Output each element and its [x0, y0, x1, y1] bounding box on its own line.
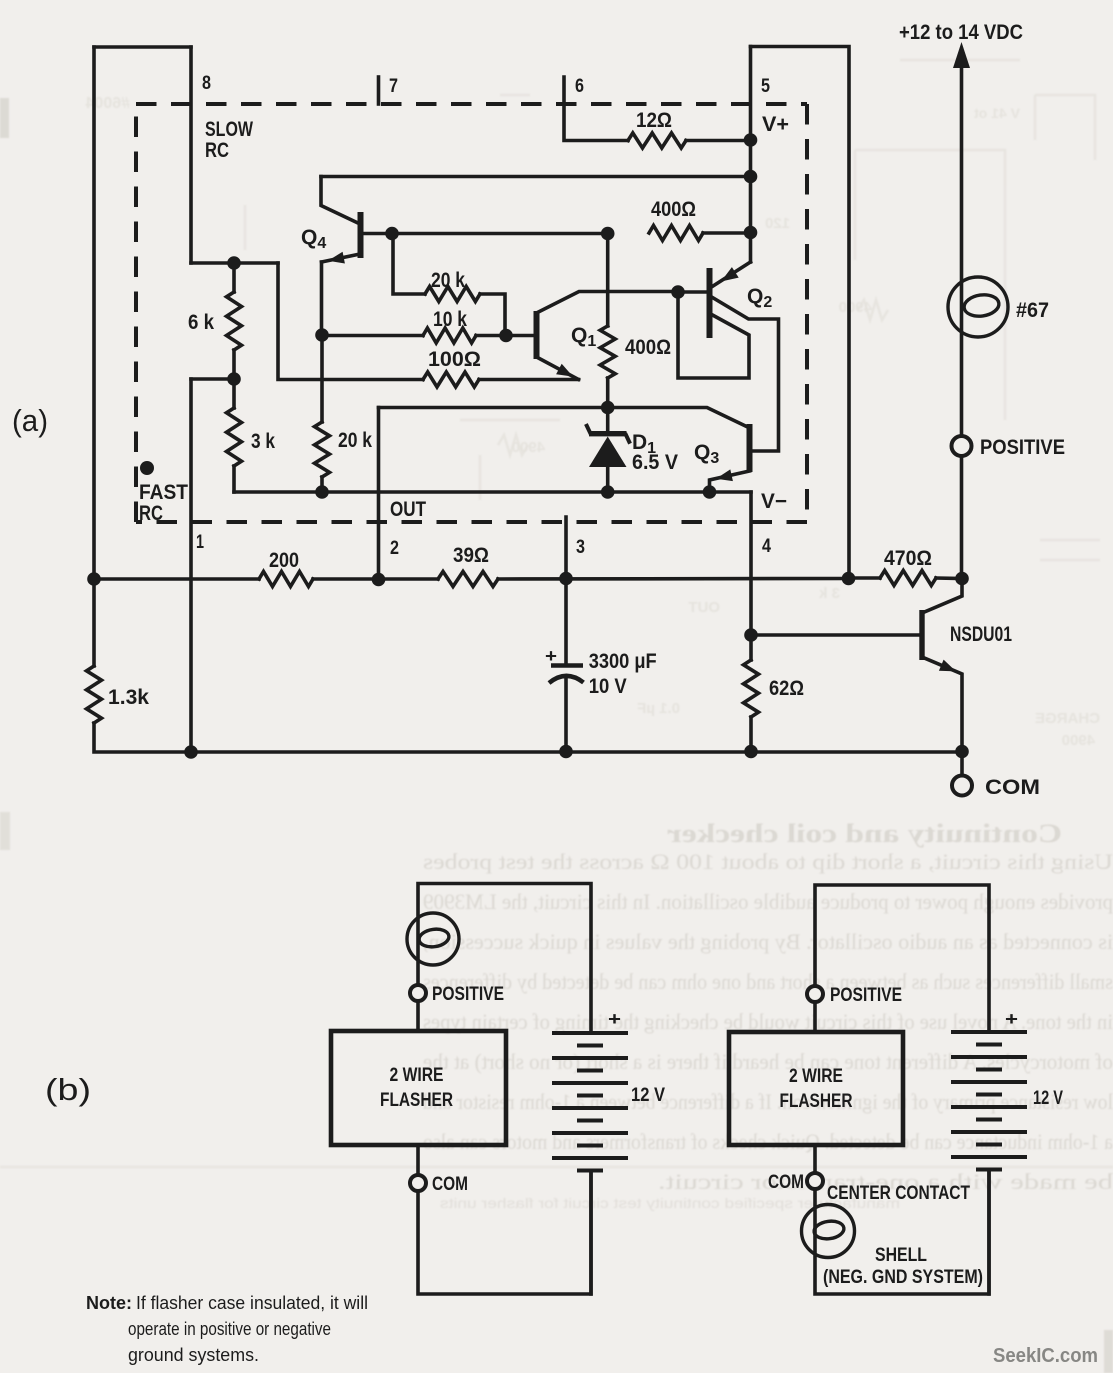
svg-text:10 V: 10 V — [589, 675, 627, 698]
svg-text:of motorcycles. A different to: of motorcycles. A different tone can be … — [423, 1049, 1113, 1074]
svg-text:6 k: 6 k — [188, 311, 214, 334]
ghost: faint rule from reverse page — [0, 1166, 1113, 1169]
wire pin 3 stub — [564, 517, 568, 579]
terminal POSITIVE (b1) — [410, 985, 426, 1001]
wire to 100 ohm — [278, 263, 423, 380]
svg-text:100Ω: 100Ω — [428, 348, 481, 371]
resistor 1.3k — [87, 666, 102, 723]
resistor 400 ohm (vertical) — [606, 234, 610, 327]
svg-text:12 V: 12 V — [631, 1085, 665, 1106]
wire left loop (b1) — [418, 884, 591, 1034]
svg-text:SHELL: SHELL — [875, 1245, 927, 1266]
svg-text:small differences such as betw: small differences such as between a shor… — [423, 969, 1113, 994]
junction 470 ohm left — [842, 572, 856, 586]
svg-text:1: 1 — [196, 532, 204, 553]
resistor 200 — [259, 572, 313, 587]
svg-text:20 k: 20 k — [338, 429, 372, 452]
svg-text:is connected as an audio oscil: is connected as an audio oscillator. By … — [423, 929, 1113, 954]
battery 12V (b1) — [552, 1031, 628, 1035]
svg-text:provides enough power to produ: provides enough power to produce audible… — [423, 889, 1113, 914]
wire lamp trunk — [960, 52, 964, 579]
svg-text:COM: COM — [768, 1172, 804, 1193]
svg-text:low resistance primary of the: low resistance primary of the ignition c… — [423, 1089, 1113, 1114]
wire pin 1 stub — [189, 379, 193, 752]
svg-text:V+: V+ — [762, 113, 789, 136]
svg-text:200: 200 — [269, 549, 299, 572]
junction 62 ohm bottom — [744, 745, 758, 759]
terminal COM — [952, 776, 972, 796]
wire pin 5 V+ trunk — [749, 47, 753, 263]
svg-text:4900: 4900 — [1062, 732, 1095, 749]
junction Q4 emitter / 10k — [315, 328, 329, 342]
junction pin 3 / rail — [559, 572, 573, 586]
svg-text:2 WIRE: 2 WIRE — [789, 1066, 843, 1087]
svg-text:OUT: OUT — [390, 498, 426, 521]
junction emitter / bottom rail — [955, 745, 969, 759]
battery 12V (b2) — [951, 1030, 1027, 1034]
svg-text:5: 5 — [761, 76, 770, 97]
transistor Q3 — [747, 424, 753, 472]
wire pin 2 stub — [377, 408, 381, 581]
svg-text:#67: #67 — [1016, 299, 1049, 322]
svg-text:+: + — [608, 1009, 621, 1029]
junction cap bottom — [559, 745, 573, 759]
svg-text:V−: V− — [761, 490, 787, 513]
svg-text:(a): (a) — [12, 403, 48, 438]
svg-text:V 41 ot: V 41 ot — [974, 105, 1020, 121]
resistor 470 ohm — [880, 571, 936, 586]
junction 6k bottom — [227, 372, 241, 386]
lamp #67 — [948, 277, 1008, 337]
junction OUT / D1 — [601, 401, 615, 415]
wire pin 8 stub — [189, 47, 193, 263]
svg-text:62Ω: 62Ω — [769, 677, 804, 700]
svg-text:0.1 µF: 0.1 µF — [637, 700, 680, 717]
svg-text:3: 3 — [576, 537, 585, 558]
svg-text:3300 μF: 3300 μF — [589, 650, 657, 673]
svg-text:ground systems.: ground systems. — [128, 1345, 259, 1365]
svg-text:7: 7 — [389, 76, 398, 97]
junction pin1 / bottom rail — [184, 745, 198, 759]
svg-text:Q3: Q3 — [694, 441, 719, 467]
svg-text:2 WIRE: 2 WIRE — [390, 1065, 444, 1086]
junction 12 ohm — [744, 133, 758, 147]
wire OUT net — [379, 408, 747, 427]
svg-text:20 k: 20 k — [431, 269, 465, 292]
junction outer left / rail — [87, 572, 101, 586]
junction Q3 emitter — [703, 485, 717, 499]
svg-text:6.5 V: 6.5 V — [632, 451, 678, 474]
lamp shell (b2) — [802, 1205, 855, 1258]
ghost: faint schematic bleed-through marks — [245, 60, 1100, 560]
junction D1 bottom — [601, 485, 615, 499]
svg-text:3 k: 3 k — [251, 430, 275, 453]
svg-text:FLASHER: FLASHER — [380, 1090, 453, 1111]
wire bottom loop (b2) — [815, 1145, 989, 1294]
terminal COM (b1) — [410, 1175, 426, 1191]
svg-text:2: 2 — [390, 538, 399, 559]
svg-text:Note:: Note: — [86, 1293, 132, 1313]
svg-text:400Ω: 400Ω — [651, 198, 696, 221]
svg-text:operate in positive or negativ: operate in positive or negative — [128, 1319, 331, 1339]
wire bottom rail — [94, 723, 962, 752]
svg-text:Q2: Q2 — [747, 285, 772, 311]
wire V- rail — [234, 490, 751, 494]
svg-text:FLASHER: FLASHER — [780, 1091, 853, 1112]
capacitor 3300uF 10V — [564, 579, 568, 665]
svg-text:12Ω: 12Ω — [636, 109, 672, 132]
svg-text:CHARGE: CHARGE — [1035, 710, 1100, 727]
svg-text:POSITIVE: POSITIVE — [830, 985, 902, 1006]
svg-text:CENTER CONTACT: CENTER CONTACT — [827, 1183, 970, 1204]
wire to COM — [960, 752, 964, 775]
wire lower rail — [94, 577, 259, 581]
wire rail to 470 ohm — [498, 577, 849, 581]
junction 470 ohm right / lamp trunk — [955, 572, 969, 586]
junction pin 2 / rail — [372, 573, 386, 587]
svg-text:3 k: 3 k — [818, 585, 840, 602]
wire bottom loop (b1) — [418, 1145, 591, 1294]
svg-text:+: + — [545, 646, 557, 666]
transistor Q1 — [506, 334, 534, 338]
wire left loop (b2) — [815, 885, 989, 1032]
junction top wire — [744, 170, 758, 184]
resistor 20k (upper) — [393, 234, 425, 295]
junction Q1 base node — [499, 329, 513, 343]
svg-text:FAST: FAST — [139, 481, 188, 504]
wire V+ outer to 470 ohm — [751, 47, 850, 579]
transistor Q4 — [321, 177, 360, 225]
svg-text:120: 120 — [765, 215, 790, 232]
resistor 6k — [232, 263, 236, 292]
resistor 62 ohm — [749, 635, 753, 660]
svg-text:4900: 4900 — [839, 299, 872, 316]
svg-text:COM: COM — [432, 1174, 468, 1195]
svg-text:Continuity and coil checker: Continuity and coil checker — [667, 819, 1062, 848]
resistor 20k (lower) — [320, 335, 324, 422]
resistor 10k — [322, 334, 423, 338]
transistor Q2 — [713, 262, 751, 286]
transistor NSDU01 — [751, 633, 920, 637]
svg-text:Using this circuit, a short di: Using this circuit, a short dip to about… — [423, 849, 1113, 874]
wire pin8 to 6k top — [191, 261, 278, 265]
wire pin 6 stub — [564, 77, 628, 141]
svg-text:(b): (b) — [45, 1072, 91, 1107]
svg-text:COM: COM — [985, 776, 1040, 799]
svg-text:NSDU01: NSDU01 — [950, 623, 1012, 646]
LM3909 IC dashed outline — [136, 104, 807, 522]
svg-text:SLOW: SLOW — [205, 118, 253, 141]
lamp (b1) — [407, 913, 459, 965]
svg-text:10 k: 10 k — [433, 308, 467, 331]
svg-text:+: + — [1005, 1009, 1018, 1029]
wire 1.3k top — [92, 579, 96, 666]
junction NSDU01 base — [744, 628, 758, 642]
flasher box (b1) — [331, 1031, 506, 1145]
resistor 400 ohm (top) — [649, 226, 703, 241]
svg-text:1.3k: 1.3k — [108, 686, 149, 709]
terminal COM (b2) — [807, 1173, 823, 1189]
resistor 3k — [232, 379, 236, 408]
svg-text:6: 6 — [575, 76, 584, 97]
wire junction to pin1 — [191, 377, 234, 381]
svg-text:8: 8 — [202, 73, 211, 94]
junction 6k top — [227, 256, 241, 270]
svg-text:RC: RC — [205, 139, 229, 162]
svg-text:470Ω: 470Ω — [884, 547, 932, 570]
svg-text:If flasher case insulated, it: If flasher case insulated, it will — [136, 1293, 368, 1313]
node FAST RC — [140, 461, 154, 475]
svg-text:Q1: Q1 — [571, 324, 596, 350]
svg-text:39Ω: 39Ω — [453, 544, 489, 567]
svg-text:+12 to 14 VDC: +12 to 14 VDC — [899, 21, 1023, 44]
svg-text:POSITIVE: POSITIVE — [980, 436, 1065, 459]
terminal POSITIVE (b2) — [807, 986, 823, 1002]
svg-text:12 V: 12 V — [1033, 1088, 1063, 1109]
zener diode D1 6.5V — [589, 431, 627, 436]
svg-text:OUT: OUT — [688, 599, 720, 616]
junction 400 ohm — [744, 226, 758, 240]
wire Q4 base rail — [392, 232, 608, 236]
svg-text:Q4: Q4 — [301, 226, 326, 252]
wire outer left vertical — [92, 47, 96, 579]
wire pin8 top — [94, 45, 191, 49]
svg-text:4900: 4900 — [512, 439, 545, 456]
svg-text:RC: RC — [139, 502, 163, 525]
svg-text:(NEG. GND SYSTEM): (NEG. GND SYSTEM) — [823, 1267, 983, 1288]
svg-text:SeekIC.com: SeekIC.com — [993, 1345, 1098, 1367]
resistor 100 ohm — [423, 372, 479, 387]
junction Q2 base — [671, 285, 685, 299]
wire Q4 collector to V+ trunk — [321, 175, 751, 179]
svg-text:POSITIVE: POSITIVE — [432, 984, 504, 1005]
wire pin 4 stub — [749, 492, 753, 635]
svg-text:#6004: #6004 — [85, 95, 130, 112]
svg-text:4: 4 — [762, 536, 771, 557]
junction 400 ohm top — [601, 227, 615, 241]
junction 20k tap — [385, 227, 399, 241]
resistor 39 ohm — [438, 572, 498, 587]
flasher box (b2) — [729, 1032, 903, 1145]
terminal POSITIVE — [952, 436, 972, 456]
junction 20k bottom — [315, 485, 329, 499]
svg-text:400Ω: 400Ω — [625, 336, 671, 359]
wire pin 7 stub — [377, 77, 381, 104]
